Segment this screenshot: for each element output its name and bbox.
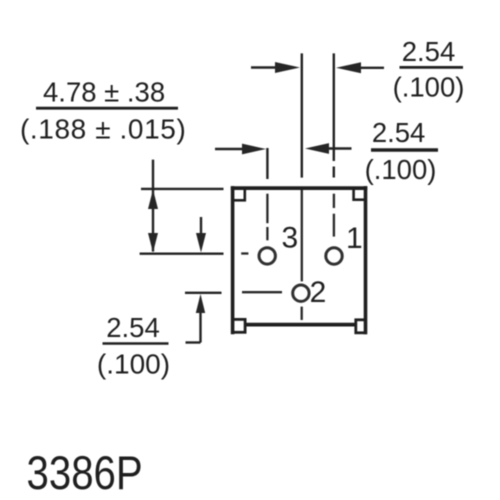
svg-text:2: 2 bbox=[310, 276, 327, 309]
svg-text:3386P: 3386P bbox=[27, 447, 143, 500]
svg-text:(.100): (.100) bbox=[393, 72, 465, 103]
svg-text:1: 1 bbox=[346, 222, 363, 255]
svg-text:(.188 ± .015): (.188 ± .015) bbox=[20, 114, 186, 145]
svg-text:3: 3 bbox=[281, 222, 298, 255]
svg-text:(.100): (.100) bbox=[365, 154, 437, 185]
svg-text:2.54: 2.54 bbox=[372, 117, 426, 148]
svg-text:(.100): (.100) bbox=[97, 349, 170, 380]
svg-text:2.54: 2.54 bbox=[402, 36, 456, 67]
svg-text:2.54: 2.54 bbox=[106, 312, 160, 343]
svg-text:4.78 ± .38: 4.78 ± .38 bbox=[43, 77, 165, 108]
